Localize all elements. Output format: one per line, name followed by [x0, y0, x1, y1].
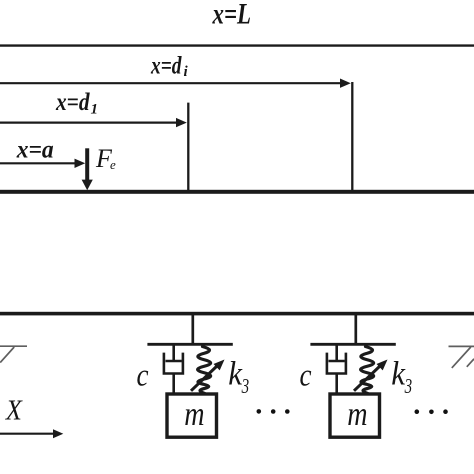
svg-text:X: X: [5, 396, 23, 427]
svg-text:m: m: [184, 396, 204, 433]
svg-text:x=d: x=d: [55, 89, 90, 116]
svg-text:x=d: x=d: [150, 53, 182, 80]
svg-text:x=L: x=L: [212, 0, 251, 31]
svg-text:e: e: [110, 157, 116, 172]
svg-text:3: 3: [241, 374, 249, 398]
svg-text:1: 1: [91, 102, 99, 118]
svg-text:c: c: [137, 357, 149, 393]
svg-text:x=a: x=a: [16, 137, 54, 164]
